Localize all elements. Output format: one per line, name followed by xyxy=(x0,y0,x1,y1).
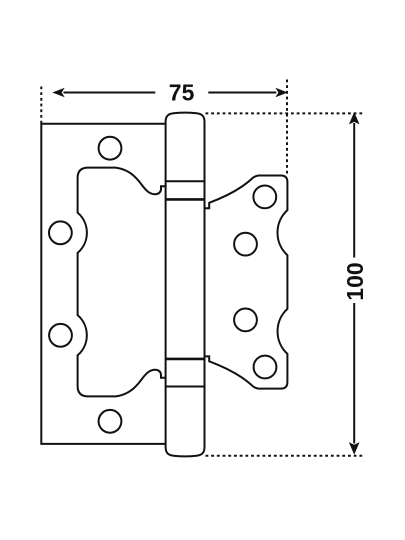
screw hole right leaf top xyxy=(253,186,276,209)
hinge barrel (knuckle cylinder) xyxy=(166,113,205,457)
dimension line 100 upper segment xyxy=(353,123,355,258)
extension line barrel top (dotted) xyxy=(206,112,364,114)
dimension arrow right xyxy=(275,88,287,97)
screw hole right leaf bottom xyxy=(254,356,277,379)
extension line right (dotted) xyxy=(286,80,288,175)
screw hole left leaf top xyxy=(99,137,122,160)
knuckle joint line top upper xyxy=(166,180,205,182)
dimension arrow down xyxy=(349,442,360,454)
extension line barrel bottom (dotted) xyxy=(206,455,364,457)
screw hole left leaf lower-left xyxy=(49,324,72,347)
screw hole right leaf lower-mid xyxy=(234,309,257,332)
dimension line 100 lower segment xyxy=(353,303,355,444)
dimension arrow up xyxy=(349,112,360,124)
knuckle joint line top lower xyxy=(166,198,205,201)
dimension line 75 right segment xyxy=(208,92,276,94)
knuckle joint line bottom lower xyxy=(166,386,205,388)
extension line left (dotted) xyxy=(40,87,42,125)
left leaf decorative cutout xyxy=(78,168,166,397)
knuckle joint line bottom upper xyxy=(166,358,205,361)
svg-text:75: 75 xyxy=(169,80,195,106)
right hinge leaf decorative outline xyxy=(205,176,288,389)
screw hole left leaf upper-left xyxy=(49,221,72,244)
screw hole right leaf upper-mid xyxy=(234,233,257,256)
dimension line 75 left segment xyxy=(64,92,156,94)
dimension arrow left xyxy=(52,88,64,97)
left hinge leaf plate xyxy=(41,124,166,444)
svg-text:100: 100 xyxy=(342,262,368,300)
screw hole left leaf bottom xyxy=(99,410,122,433)
